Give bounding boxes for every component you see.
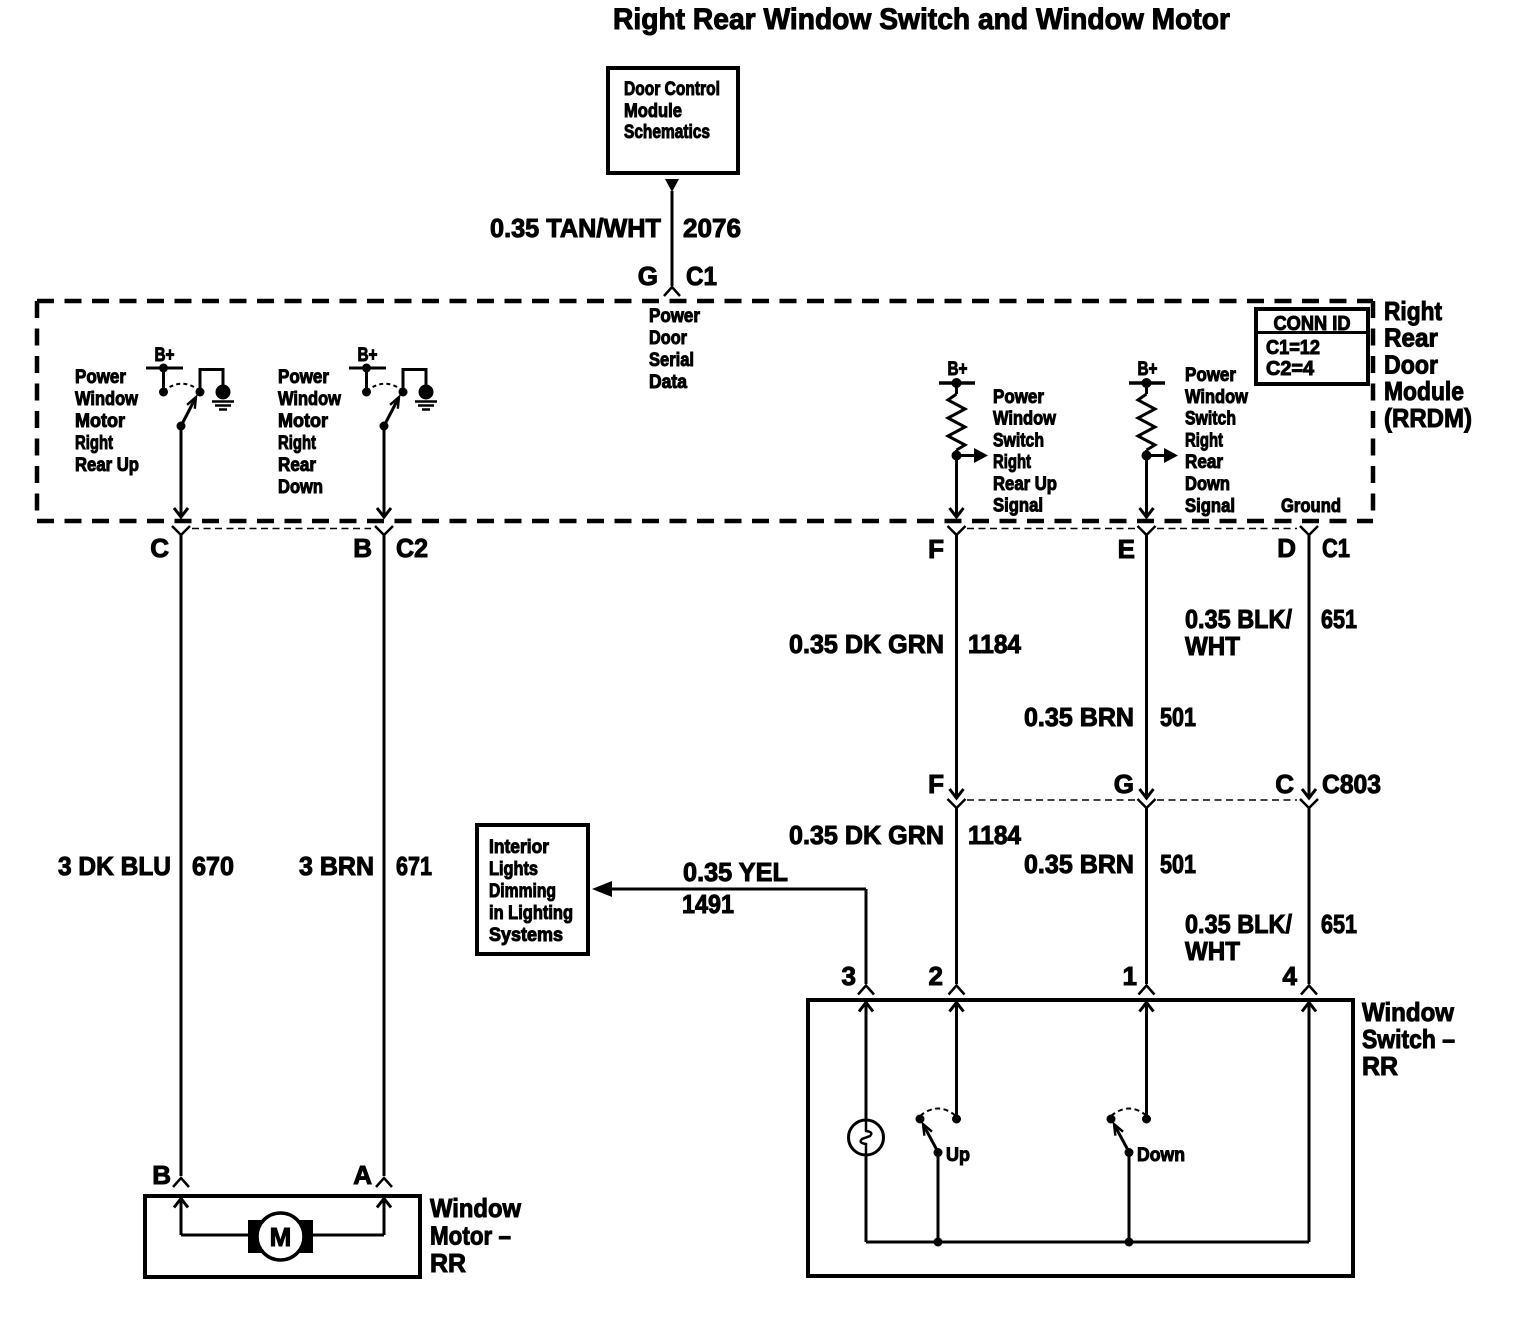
svg-text:0.35 DK GRN: 0.35 DK GRN bbox=[789, 629, 944, 659]
svg-text:Motor –: Motor – bbox=[430, 1221, 511, 1251]
svg-text:Switch: Switch bbox=[993, 430, 1044, 451]
svg-text:671: 671 bbox=[396, 851, 432, 881]
svg-text:Rear: Rear bbox=[278, 455, 317, 476]
svg-text:B+: B+ bbox=[358, 345, 378, 366]
svg-text:Door: Door bbox=[1384, 349, 1438, 379]
svg-text:Module: Module bbox=[1384, 376, 1464, 406]
svg-text:3 BRN: 3 BRN bbox=[299, 851, 374, 881]
svg-text:Signal: Signal bbox=[993, 496, 1043, 517]
svg-text:Power: Power bbox=[75, 367, 127, 388]
svg-text:Power: Power bbox=[993, 387, 1045, 408]
svg-text:Interior: Interior bbox=[489, 837, 550, 858]
svg-text:Rear: Rear bbox=[1384, 323, 1438, 353]
svg-text:0.35 BRN: 0.35 BRN bbox=[1024, 849, 1134, 879]
svg-text:Power: Power bbox=[278, 367, 330, 388]
svg-text:Lights: Lights bbox=[489, 859, 538, 880]
svg-text:1184: 1184 bbox=[968, 820, 1022, 850]
svg-text:E: E bbox=[1118, 534, 1135, 564]
svg-text:RR: RR bbox=[430, 1248, 466, 1278]
svg-text:G: G bbox=[638, 261, 658, 291]
svg-text:4: 4 bbox=[1283, 961, 1298, 991]
svg-text:B+: B+ bbox=[155, 345, 175, 366]
svg-text:Down: Down bbox=[278, 477, 323, 498]
svg-text:Module: Module bbox=[624, 101, 682, 122]
svg-text:Power: Power bbox=[1185, 365, 1237, 386]
svg-text:Signal: Signal bbox=[1185, 496, 1235, 517]
svg-text:G: G bbox=[1114, 769, 1134, 799]
svg-text:A: A bbox=[353, 1160, 372, 1190]
svg-text:C1=12: C1=12 bbox=[1266, 337, 1320, 359]
svg-text:501: 501 bbox=[1160, 702, 1196, 732]
svg-text:Rear Up: Rear Up bbox=[75, 455, 139, 476]
svg-text:WHT: WHT bbox=[1185, 631, 1240, 661]
svg-text:Right: Right bbox=[1384, 296, 1442, 326]
svg-text:Window: Window bbox=[75, 389, 138, 410]
svg-text:Switch –: Switch – bbox=[1362, 1024, 1455, 1054]
svg-text:1: 1 bbox=[1123, 961, 1137, 991]
svg-text:0.35 DK GRN: 0.35 DK GRN bbox=[789, 820, 944, 850]
svg-text:Right: Right bbox=[278, 433, 317, 454]
svg-text:Right: Right bbox=[75, 433, 114, 454]
svg-text:C1: C1 bbox=[686, 261, 717, 291]
svg-text:670: 670 bbox=[192, 851, 234, 881]
svg-text:Schematics: Schematics bbox=[624, 122, 710, 143]
svg-text:Up: Up bbox=[946, 1145, 970, 1166]
svg-text:Motor: Motor bbox=[75, 411, 126, 432]
svg-text:Power: Power bbox=[649, 306, 701, 327]
svg-text:651: 651 bbox=[1321, 909, 1357, 939]
svg-text:in Lighting: in Lighting bbox=[489, 903, 573, 924]
svg-text:Motor: Motor bbox=[278, 411, 329, 432]
svg-text:Ground: Ground bbox=[1281, 496, 1341, 517]
svg-text:F: F bbox=[928, 534, 944, 564]
svg-text:0.35 TAN/WHT: 0.35 TAN/WHT bbox=[490, 213, 661, 243]
svg-text:C2: C2 bbox=[396, 533, 428, 563]
svg-text:Rear Up: Rear Up bbox=[993, 474, 1057, 495]
svg-text:C: C bbox=[1275, 769, 1294, 799]
svg-text:Window: Window bbox=[1185, 387, 1248, 408]
svg-text:Window: Window bbox=[430, 1193, 522, 1223]
svg-text:WHT: WHT bbox=[1185, 936, 1240, 966]
svg-text:B: B bbox=[152, 1160, 171, 1190]
svg-text:Door Control: Door Control bbox=[624, 79, 720, 100]
svg-text:2: 2 bbox=[929, 961, 943, 991]
svg-text:Rear: Rear bbox=[1185, 452, 1224, 473]
svg-text:0.35 BLK/: 0.35 BLK/ bbox=[1185, 909, 1292, 939]
svg-text:3: 3 bbox=[842, 961, 856, 991]
svg-text:501: 501 bbox=[1160, 849, 1196, 879]
svg-text:Data: Data bbox=[649, 372, 687, 393]
svg-text:B+: B+ bbox=[1138, 359, 1158, 380]
svg-text:Window: Window bbox=[1362, 997, 1455, 1027]
svg-text:Dimming: Dimming bbox=[489, 881, 556, 902]
svg-text:1184: 1184 bbox=[968, 629, 1022, 659]
svg-text:C803: C803 bbox=[1322, 769, 1381, 799]
svg-text:Door: Door bbox=[649, 328, 688, 349]
svg-text:651: 651 bbox=[1321, 604, 1357, 634]
svg-text:2076: 2076 bbox=[683, 213, 741, 243]
svg-text:0.35 BRN: 0.35 BRN bbox=[1024, 702, 1134, 732]
svg-text:C: C bbox=[150, 533, 169, 563]
svg-text:CONN ID: CONN ID bbox=[1274, 313, 1351, 335]
svg-text:C1: C1 bbox=[1322, 533, 1350, 563]
svg-text:B: B bbox=[353, 533, 372, 563]
svg-text:Window: Window bbox=[993, 409, 1056, 430]
svg-text:Right Rear Window Switch and W: Right Rear Window Switch and Window Moto… bbox=[613, 3, 1230, 36]
svg-text:Switch: Switch bbox=[1185, 409, 1236, 430]
svg-text:Right: Right bbox=[1185, 430, 1224, 451]
svg-text:D: D bbox=[1277, 533, 1296, 563]
svg-text:3 DK BLU: 3 DK BLU bbox=[58, 851, 171, 881]
svg-text:RR: RR bbox=[1362, 1051, 1398, 1081]
svg-text:(RRDM): (RRDM) bbox=[1384, 403, 1472, 433]
svg-text:B+: B+ bbox=[948, 359, 968, 380]
svg-text:C2=4: C2=4 bbox=[1266, 358, 1315, 380]
svg-text:Systems: Systems bbox=[489, 925, 563, 946]
svg-text:0.35 BLK/: 0.35 BLK/ bbox=[1185, 604, 1292, 634]
svg-text:Right: Right bbox=[993, 452, 1032, 473]
svg-text:F: F bbox=[928, 769, 944, 799]
svg-text:1491: 1491 bbox=[682, 889, 734, 919]
svg-text:M: M bbox=[270, 1222, 292, 1252]
svg-text:Down: Down bbox=[1137, 1145, 1185, 1166]
svg-text:Serial: Serial bbox=[649, 350, 694, 371]
svg-text:Window: Window bbox=[278, 389, 341, 410]
svg-text:0.35 YEL: 0.35 YEL bbox=[683, 857, 788, 887]
svg-text:Down: Down bbox=[1185, 474, 1230, 495]
